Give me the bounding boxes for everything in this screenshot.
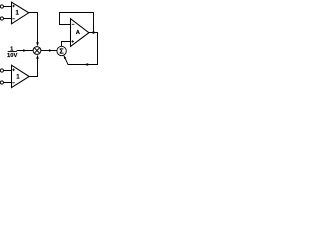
svg-text:Σ: Σ [59, 47, 64, 56]
svg-text:1: 1 [16, 75, 20, 81]
svg-text:10V: 10V [7, 53, 17, 59]
svg-text:A: A [76, 30, 81, 36]
svg-text:1: 1 [16, 11, 20, 17]
